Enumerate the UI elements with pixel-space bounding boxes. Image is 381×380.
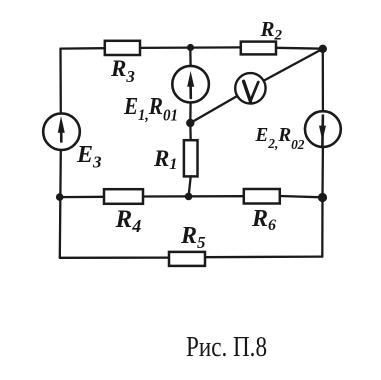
node top junction [187,44,194,51]
label E3 [76,142,102,172]
svg-text:Рис. П.8: Рис. П.8 [186,331,267,363]
caption figure title [186,331,267,363]
voltage source E3 [43,113,80,150]
wire bottom left segment [60,256,169,258]
wire left vertical lower [60,150,61,258]
voltmeter V [235,73,265,103]
wire R1 to bottom node [189,176,191,196]
label R3 [110,56,135,86]
wire top left segment [61,47,106,50]
resistor R2 [241,42,276,55]
resistor R5 [169,252,205,266]
label E2,R02 [255,124,305,153]
wire top middle segment [140,46,241,49]
resistor R3 [105,41,140,55]
svg-text:R6: R6 [251,206,276,234]
resistor R1 [184,140,198,176]
wire mid row right segment [280,196,323,197]
wire mid row left segment [60,196,104,199]
wire top right segment [276,47,323,50]
resistor R6 [244,189,280,204]
wire diagonal upper segment [264,49,323,81]
node mid row right [318,193,327,202]
node top right corner [319,45,327,53]
node mid row left [56,193,64,201]
wire right vertical upper [322,49,324,111]
wire right vertical middle [321,147,324,198]
wire node to R1 [189,123,192,140]
label R4 [115,206,142,236]
label E1,R01 [123,94,178,125]
label R6 [251,206,276,234]
voltage source E2 [305,111,341,147]
svg-text:R4: R4 [115,206,142,236]
svg-text:E2,R02: E2,R02 [255,124,305,153]
voltage source E1 [172,66,209,103]
svg-text:R2: R2 [260,17,283,44]
svg-text:E3: E3 [76,142,102,172]
wire left vertical upper [59,49,62,114]
node E1 R1 diagonal junction [186,119,194,127]
wire diagonal lower segment [190,96,237,123]
label R1 [153,146,177,173]
wire mid row center segment [143,195,244,198]
label R5 [180,223,206,252]
wire E1 to node [189,103,192,124]
wire bottom right segment [205,255,322,258]
node R1 bottom junction [185,193,193,201]
svg-text:R3: R3 [110,56,135,86]
resistor R4 [104,189,143,204]
label R2 [260,17,283,44]
svg-text:R1: R1 [153,146,177,173]
wire E1 branch top [189,48,192,67]
svg-text:R5: R5 [180,223,206,252]
wire right vertical lower [321,198,324,257]
svg-text:E1,R01: E1,R01 [123,94,178,125]
